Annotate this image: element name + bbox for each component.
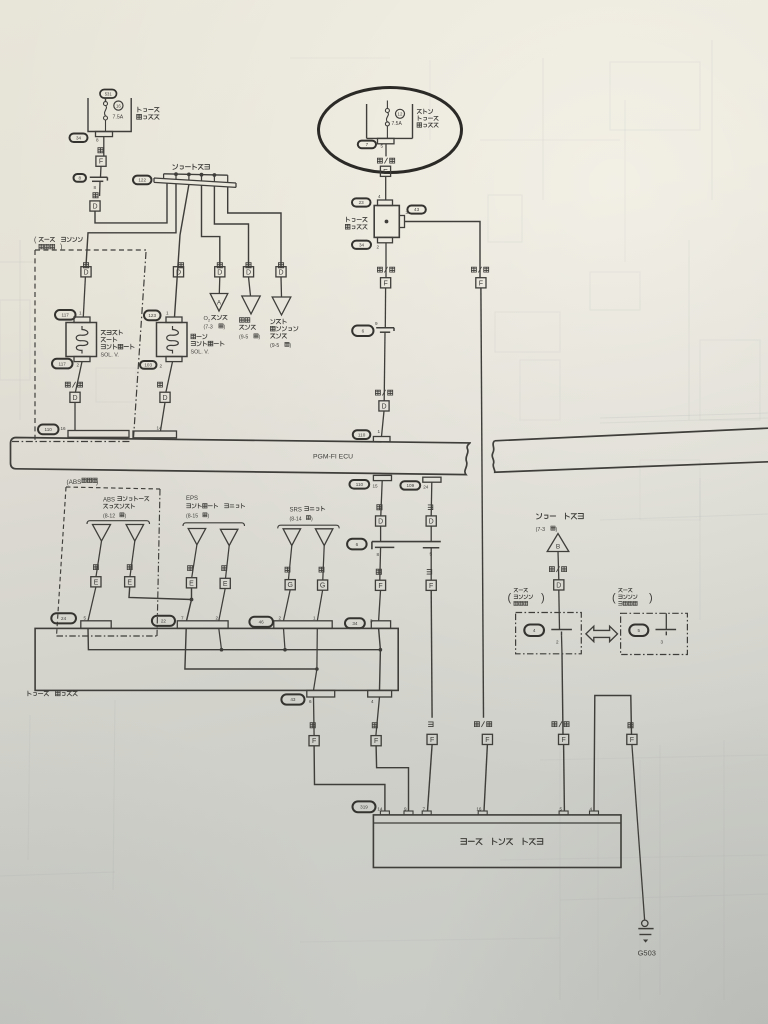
wire pin24 down (sky) — [430, 482, 433, 516]
EPS triangle 2 — [220, 529, 238, 545]
svg-text:(: ( — [612, 592, 616, 604]
wire color green (EPS) — [188, 566, 193, 571]
svg-text:D: D — [378, 519, 383, 526]
SRS triangle 2 — [315, 529, 333, 546]
svg-text:D: D — [83, 269, 88, 276]
code box F (mid) — [381, 278, 391, 288]
svg-text:4: 4 — [371, 699, 374, 704]
fusebox tab pins2-1 — [274, 621, 332, 629]
code box D (O2) — [215, 267, 225, 277]
svg-text:16: 16 — [61, 426, 67, 431]
connector 8 inline symbol — [90, 177, 108, 181]
svg-text:8: 8 — [79, 176, 82, 181]
svg-text:9: 9 — [375, 321, 378, 326]
svg-text:(7-3: (7-3 — [204, 325, 213, 331]
svg-text:22: 22 — [161, 619, 167, 624]
wire color white/red (above ECU) — [375, 390, 392, 395]
svg-text:): ) — [208, 514, 210, 520]
svg-text:4: 4 — [378, 194, 381, 199]
label PGM-FI ECU — [313, 454, 353, 461]
label hyuuzu bokkusu (top-left) — [137, 107, 159, 119]
label SRS unit — [290, 506, 325, 522]
svg-text:3: 3 — [661, 640, 664, 645]
SRS triangle 1 — [283, 529, 301, 546]
fuse box 531 outline bracket — [88, 98, 131, 132]
ground G503 — [638, 920, 656, 957]
code box F (white/red bottom) — [482, 734, 492, 744]
pin 9 label — [375, 321, 378, 326]
wire color white/red (right) — [471, 267, 488, 272]
code box D (sky) — [426, 516, 436, 526]
wire color brown (SRS) — [285, 567, 290, 572]
dashed box turbo-equipped (left) — [12, 250, 146, 442]
svg-text:2: 2 — [556, 640, 559, 645]
code box D (top-left) — [90, 201, 100, 211]
svg-text:F: F — [561, 737, 565, 744]
label purge control SOL.V. — [191, 334, 225, 355]
code box F (sky bottom) — [427, 734, 437, 744]
fusebox tab pins7-2 — [177, 621, 228, 629]
wire color sky (upper) — [428, 505, 433, 510]
pin 4 label — [378, 194, 381, 199]
pin 6 label — [309, 699, 312, 704]
connector oval 34 (fusebox) — [352, 241, 371, 249]
svg-text:5: 5 — [638, 628, 641, 633]
svg-text:): ) — [224, 325, 226, 331]
connector oval 5 — [629, 625, 648, 637]
wire SRS tri1 to G — [289, 546, 292, 580]
svg-text:): ) — [125, 514, 127, 520]
wastegate solenoid body — [66, 317, 97, 362]
connector oval 109 pin 24 — [400, 481, 428, 489]
wire conn6 to F (brown) — [379, 547, 382, 580]
svg-text:(: ( — [34, 237, 37, 244]
short coupler comb — [164, 172, 228, 182]
svg-text:F: F — [479, 280, 483, 287]
wire white/red long right branch — [481, 288, 484, 718]
wire color brown (lower) — [376, 569, 381, 574]
label speed sensor (9-5) — [239, 318, 261, 341]
svg-text:SOL. V.: SOL. V. — [101, 353, 119, 359]
svg-text:34: 34 — [359, 242, 365, 247]
svg-text:(: ( — [508, 592, 512, 604]
svg-text:D: D — [217, 269, 222, 276]
svg-text:34: 34 — [352, 621, 358, 626]
wire turbo box to F (brown/yellow) — [562, 654, 563, 735]
svg-text:B: B — [556, 544, 560, 551]
svg-text:117: 117 — [59, 361, 67, 366]
svg-text:2: 2 — [216, 616, 219, 621]
ECU band tab pin14 — [133, 431, 177, 438]
connector oval 23 — [352, 198, 371, 206]
pin2 col SRS brown to lineA — [284, 628, 286, 649]
svg-text:109: 109 — [406, 483, 414, 488]
code box E (EPS brown) — [220, 578, 230, 588]
pin 5 label (conn6) — [430, 551, 433, 556]
wire D to wastegate sol — [83, 277, 85, 317]
label hyuuzu bokkusu (middle) — [345, 217, 367, 229]
connector oval 22 pin 7 — [152, 616, 184, 626]
label short coupler (syooto kapura) — [173, 164, 210, 169]
svg-text:D: D — [381, 403, 386, 410]
pin 8 label (conn6) — [377, 552, 380, 557]
datalink pin tabs — [380, 811, 598, 815]
circled 16 rating — [113, 101, 124, 120]
svg-text:F: F — [430, 737, 434, 744]
wire black from pin4 up-over — [594, 696, 632, 812]
connector oval 117 pin 1 — [55, 310, 82, 320]
datalink coupler box — [373, 815, 621, 868]
svg-text:43: 43 — [290, 697, 296, 702]
svg-text:1: 1 — [166, 311, 169, 316]
label short coupler (7-3) — [536, 513, 584, 533]
svg-text:122: 122 — [138, 178, 146, 183]
wire color white/red (mid) — [377, 267, 394, 272]
svg-text:7: 7 — [366, 142, 369, 147]
wire yellow label D (O2) — [217, 263, 222, 268]
ABS triangle 2 — [126, 525, 144, 542]
connector 6 (lower) inline symbol — [372, 542, 441, 550]
wire ABS green joins EPS green — [129, 587, 192, 600]
svg-text:6: 6 — [309, 699, 312, 704]
svg-text:7.5A: 7.5A — [113, 114, 124, 120]
wire color white/red (bottom) — [474, 722, 491, 727]
dashed box ABS-equipped — [57, 487, 161, 636]
code box D (shift) — [276, 267, 286, 277]
wire green to datalink pin14 — [314, 746, 385, 811]
svg-text:): ) — [290, 343, 292, 349]
code box D (brown) — [376, 516, 386, 526]
dashed box turbo-equipped (right) — [516, 613, 582, 654]
wire fuse box to right branch — [405, 222, 481, 278]
wire color yellow — [98, 148, 103, 153]
connector oval 43 — [407, 206, 425, 214]
svg-text:5: 5 — [381, 144, 384, 149]
connector oval 4 — [524, 625, 544, 637]
ABS bracket — [87, 521, 150, 524]
wire D to ECU pin16 — [74, 402, 76, 430]
svg-text:): ) — [96, 479, 98, 486]
wire red/white label D — [65, 362, 82, 392]
svg-text:): ) — [311, 516, 313, 522]
speed sensor triangle — [242, 296, 260, 314]
svg-text:117: 117 — [62, 313, 70, 318]
wire color green (bottom) — [310, 723, 315, 728]
svg-text:F: F — [99, 159, 103, 166]
pin 1 label (SRS green) — [313, 616, 316, 621]
svg-text:110: 110 — [358, 432, 366, 437]
svg-text:110: 110 — [45, 427, 53, 432]
label (turbo engine tousai-sha) right — [508, 588, 545, 605]
wire color brown (EPS) — [222, 566, 227, 571]
wire color black — [628, 723, 633, 728]
wire D to shift triangle — [280, 277, 283, 297]
wire fuse box down — [385, 243, 387, 278]
pin2 col EPS brown to lineA — [219, 628, 222, 649]
svg-text:23: 23 — [359, 200, 365, 205]
svg-text:(9-5: (9-5 — [270, 343, 279, 349]
main fuse bottom tab — [378, 138, 395, 143]
wire F to connector 8 — [100, 166, 103, 177]
lineB dot down to pin6 tab — [314, 669, 317, 690]
wire yellow label D (top-left) — [93, 181, 100, 198]
pin 8 label — [94, 185, 97, 190]
wire yellow label D (purge) — [178, 263, 183, 268]
svg-text:319: 319 — [360, 805, 368, 810]
connector oval 110 pin 1 (top) — [353, 429, 381, 439]
label (turbo engine hi-tousai-sha) — [612, 588, 653, 605]
wire color green (ABS) — [127, 565, 132, 570]
svg-text:E: E — [223, 581, 228, 588]
wire color green (SRS) — [319, 567, 324, 572]
wire sky long down — [430, 590, 433, 717]
pin 4 label (bottom) — [371, 699, 374, 704]
svg-text:2: 2 — [279, 616, 282, 621]
wire red label D — [158, 362, 173, 392]
wire ABS tri2 to E — [130, 541, 135, 577]
pin1 col SRS green to lineB — [316, 628, 318, 669]
ECU band bottom tab pin15 — [373, 475, 391, 480]
wire EPS tri2 to E — [226, 546, 230, 579]
svg-text:24: 24 — [423, 484, 429, 489]
svg-text:PGM-FI ECU: PGM-FI ECU — [313, 454, 353, 461]
wire EPS tri1 to E — [192, 545, 197, 577]
connector oval 122 — [133, 176, 152, 185]
svg-text:F: F — [374, 738, 378, 745]
wire ABS tri1 to E — [96, 541, 102, 577]
label main fuse box — [417, 109, 438, 127]
label shift position sensor (9-5) — [270, 319, 298, 349]
svg-text:531: 531 — [105, 91, 113, 96]
connector 4 inline symbol — [551, 630, 572, 645]
connector oval 7 pin 5 — [358, 141, 384, 149]
svg-text:46: 46 — [259, 620, 265, 625]
connector oval 6 (upper) — [352, 326, 373, 337]
wire F to fusebox pin3 — [379, 590, 381, 620]
shift position sensor triangle — [272, 297, 291, 315]
wire to datalink pin5 — [563, 745, 566, 812]
svg-text:(8-14: (8-14 — [290, 516, 302, 522]
svg-text:123: 123 — [148, 313, 156, 318]
connector oval 43 pins 6 4 — [281, 694, 304, 704]
svg-text:(7-3: (7-3 — [536, 527, 546, 533]
svg-text:SRS: SRS — [290, 508, 302, 514]
code box F (green bottom) — [309, 736, 319, 746]
wire black to ground — [632, 745, 645, 920]
connector oval 34 pin 8 — [70, 134, 100, 143]
svg-text:G: G — [287, 582, 292, 589]
junction dot green — [190, 598, 194, 602]
svg-text:16: 16 — [116, 104, 121, 109]
connector oval 8 — [74, 174, 87, 182]
connector oval 110 pin 16 — [38, 425, 66, 435]
O2 sensor triangle A — [210, 294, 228, 312]
pin3 col down to lineA and pin4 — [379, 628, 381, 690]
connector oval 531 — [100, 90, 117, 99]
wire yellow label F (top-left) — [103, 137, 105, 156]
svg-text:G: G — [320, 583, 325, 590]
wire SRS tri2 to G — [323, 546, 324, 580]
wire color sky (bottom) — [428, 722, 433, 727]
wire D to O2 triangle — [218, 277, 221, 294]
code box D (red/white) — [70, 392, 80, 402]
pin 3 label (fusebox) — [406, 210, 409, 215]
wire yellow label D (speed) — [246, 263, 251, 268]
wire color brown (ABS) — [93, 565, 98, 570]
pin 2 label (EPS brown) — [216, 616, 219, 621]
ECU band bottom tab pin24 — [423, 477, 441, 482]
ECU band tab pin1 — [373, 437, 390, 442]
svg-text:5: 5 — [84, 616, 87, 621]
label EPS control unit — [186, 496, 245, 520]
svg-text:1: 1 — [313, 616, 316, 621]
fuse box (lower) body — [35, 628, 398, 690]
wire pin15 down (brown) — [381, 481, 382, 516]
svg-text:A: A — [217, 300, 221, 306]
svg-text:2: 2 — [376, 245, 379, 250]
svg-text:F: F — [378, 583, 382, 590]
fusebox bottom tab pin6 — [307, 690, 335, 697]
pin 14 label — [157, 426, 163, 431]
coupler wire f to shift pos sensor — [228, 187, 281, 268]
svg-text:1: 1 — [378, 429, 381, 434]
wire color white/red (ellipse) — [377, 158, 394, 163]
svg-text:15: 15 — [373, 483, 379, 488]
wire pin6 down green — [313, 697, 316, 735]
ECU band tab pin16 — [68, 431, 129, 438]
code box F (right) — [476, 278, 486, 288]
fusebox tab pin5 — [81, 621, 111, 629]
EPS triangle 1 — [188, 529, 206, 545]
dashed box turbo-not-equipped — [621, 613, 688, 654]
purge solenoid body — [157, 317, 188, 362]
code box E (ellipse) — [380, 166, 390, 176]
svg-text:7.5A: 7.5A — [392, 121, 403, 127]
svg-text:F: F — [630, 737, 634, 744]
svg-text:): ) — [556, 527, 558, 533]
svg-text:D: D — [556, 582, 561, 589]
svg-text:(8-15: (8-15 — [186, 514, 198, 520]
circled 12 rating — [392, 109, 405, 127]
svg-text:2: 2 — [208, 318, 211, 323]
fusebox tab pin3 — [371, 621, 390, 629]
wire main fuse down — [385, 144, 387, 157]
wire B triangle down — [557, 552, 560, 580]
short coupler triangle B — [547, 534, 569, 552]
fusebox bottom tab pin4 — [368, 690, 392, 697]
wire D to short coupler pin1 — [95, 183, 167, 223]
svg-text:8: 8 — [94, 185, 97, 190]
svg-text:E: E — [94, 579, 99, 586]
svg-text:1: 1 — [79, 311, 82, 316]
svg-text:D: D — [246, 269, 251, 276]
wire D to connector6b (sky) — [430, 526, 432, 542]
wire color brown (upper) — [377, 505, 382, 510]
code box F (top-left) — [96, 156, 106, 166]
svg-text:D: D — [72, 395, 77, 402]
wire color sky (lower) — [427, 569, 432, 574]
label data link coupler — [461, 838, 543, 845]
PGM-FI ECU band left segment — [11, 438, 471, 475]
svg-text:F: F — [485, 737, 489, 744]
svg-text:6: 6 — [362, 328, 365, 333]
svg-text:F: F — [429, 583, 433, 590]
svg-text:34: 34 — [76, 135, 82, 140]
wire D into turbo box — [558, 590, 561, 630]
wire D to ECU pin14 — [161, 402, 166, 430]
svg-text:24: 24 — [61, 616, 67, 621]
SRS bracket — [278, 525, 340, 528]
code box F (brown/yellow bottom) — [559, 734, 569, 744]
wire conn6 to F (sky) — [430, 548, 432, 580]
svg-text:G503: G503 — [638, 949, 656, 958]
wire color brown (bottom) — [372, 723, 377, 728]
fuse 12 7.5A symbol — [385, 101, 389, 139]
svg-text:14: 14 — [157, 426, 163, 431]
code box E (EPS green) — [186, 578, 196, 588]
double arrow turbo variant — [586, 626, 618, 641]
svg-text:(9-5: (9-5 — [239, 335, 248, 341]
svg-text:D: D — [278, 269, 283, 276]
datalink pin labels — [377, 807, 592, 812]
highlight ellipse — [319, 88, 462, 173]
EPS bracket — [183, 523, 245, 526]
code box E (ABS brown) — [91, 577, 101, 587]
wire color brown/yellow (upper) — [549, 567, 566, 572]
code box E (ABS green) — [125, 577, 135, 587]
connector oval 103 pin 2 — [140, 361, 163, 369]
svg-text:8: 8 — [377, 552, 380, 557]
connector oval 34 pin 3 (lower box) — [345, 618, 373, 628]
main fuse box bracket — [367, 104, 413, 138]
wire D to connector6b (brown) — [380, 526, 382, 542]
wire G to fusebox pin1 — [317, 590, 322, 621]
connector oval 117 pin 2 — [52, 359, 80, 369]
svg-text:2: 2 — [160, 364, 163, 369]
pin 2 label (fusebox) — [376, 245, 379, 250]
wire E to fusebox pin2 — [219, 589, 225, 621]
svg-text:D: D — [176, 269, 181, 276]
svg-text:103: 103 — [144, 363, 152, 368]
code box D (wastegate) — [81, 267, 91, 277]
code box D (brown/yellow) — [554, 580, 564, 590]
code box F (sky) — [426, 580, 436, 590]
svg-text:7: 7 — [181, 616, 184, 621]
svg-text:2: 2 — [77, 363, 80, 368]
label hyuuzu bokkusu (lower) — [28, 691, 77, 696]
label wastegate control SOL.V. — [101, 330, 135, 359]
svg-text:12: 12 — [398, 112, 403, 117]
code box D (red) — [160, 392, 170, 402]
code box G (SRS brown) — [285, 580, 295, 590]
wire E to fusebox pin5 — [88, 587, 96, 621]
code box D (speed) — [243, 267, 253, 277]
label (ABS soubisha) — [67, 478, 99, 486]
code box F (black) — [627, 734, 637, 744]
fuse 16 7.5A symbol — [104, 102, 108, 132]
wire pin4 down brown — [376, 697, 380, 735]
short coupler body bar — [154, 178, 236, 187]
wire yellow label D (shift) — [278, 263, 283, 268]
wire oval531 to fuse — [105, 98, 107, 101]
junction dot fuse box — [385, 220, 389, 224]
wire brown to datalink pin9 — [376, 746, 408, 811]
wire conn4 down — [561, 635, 564, 654]
wire E to fuse box block — [385, 176, 387, 200]
coupler wire b to wastegate — [86, 184, 176, 266]
connector 5 inline symbol — [656, 613, 677, 644]
connector oval 46 pin 2 — [249, 616, 281, 627]
